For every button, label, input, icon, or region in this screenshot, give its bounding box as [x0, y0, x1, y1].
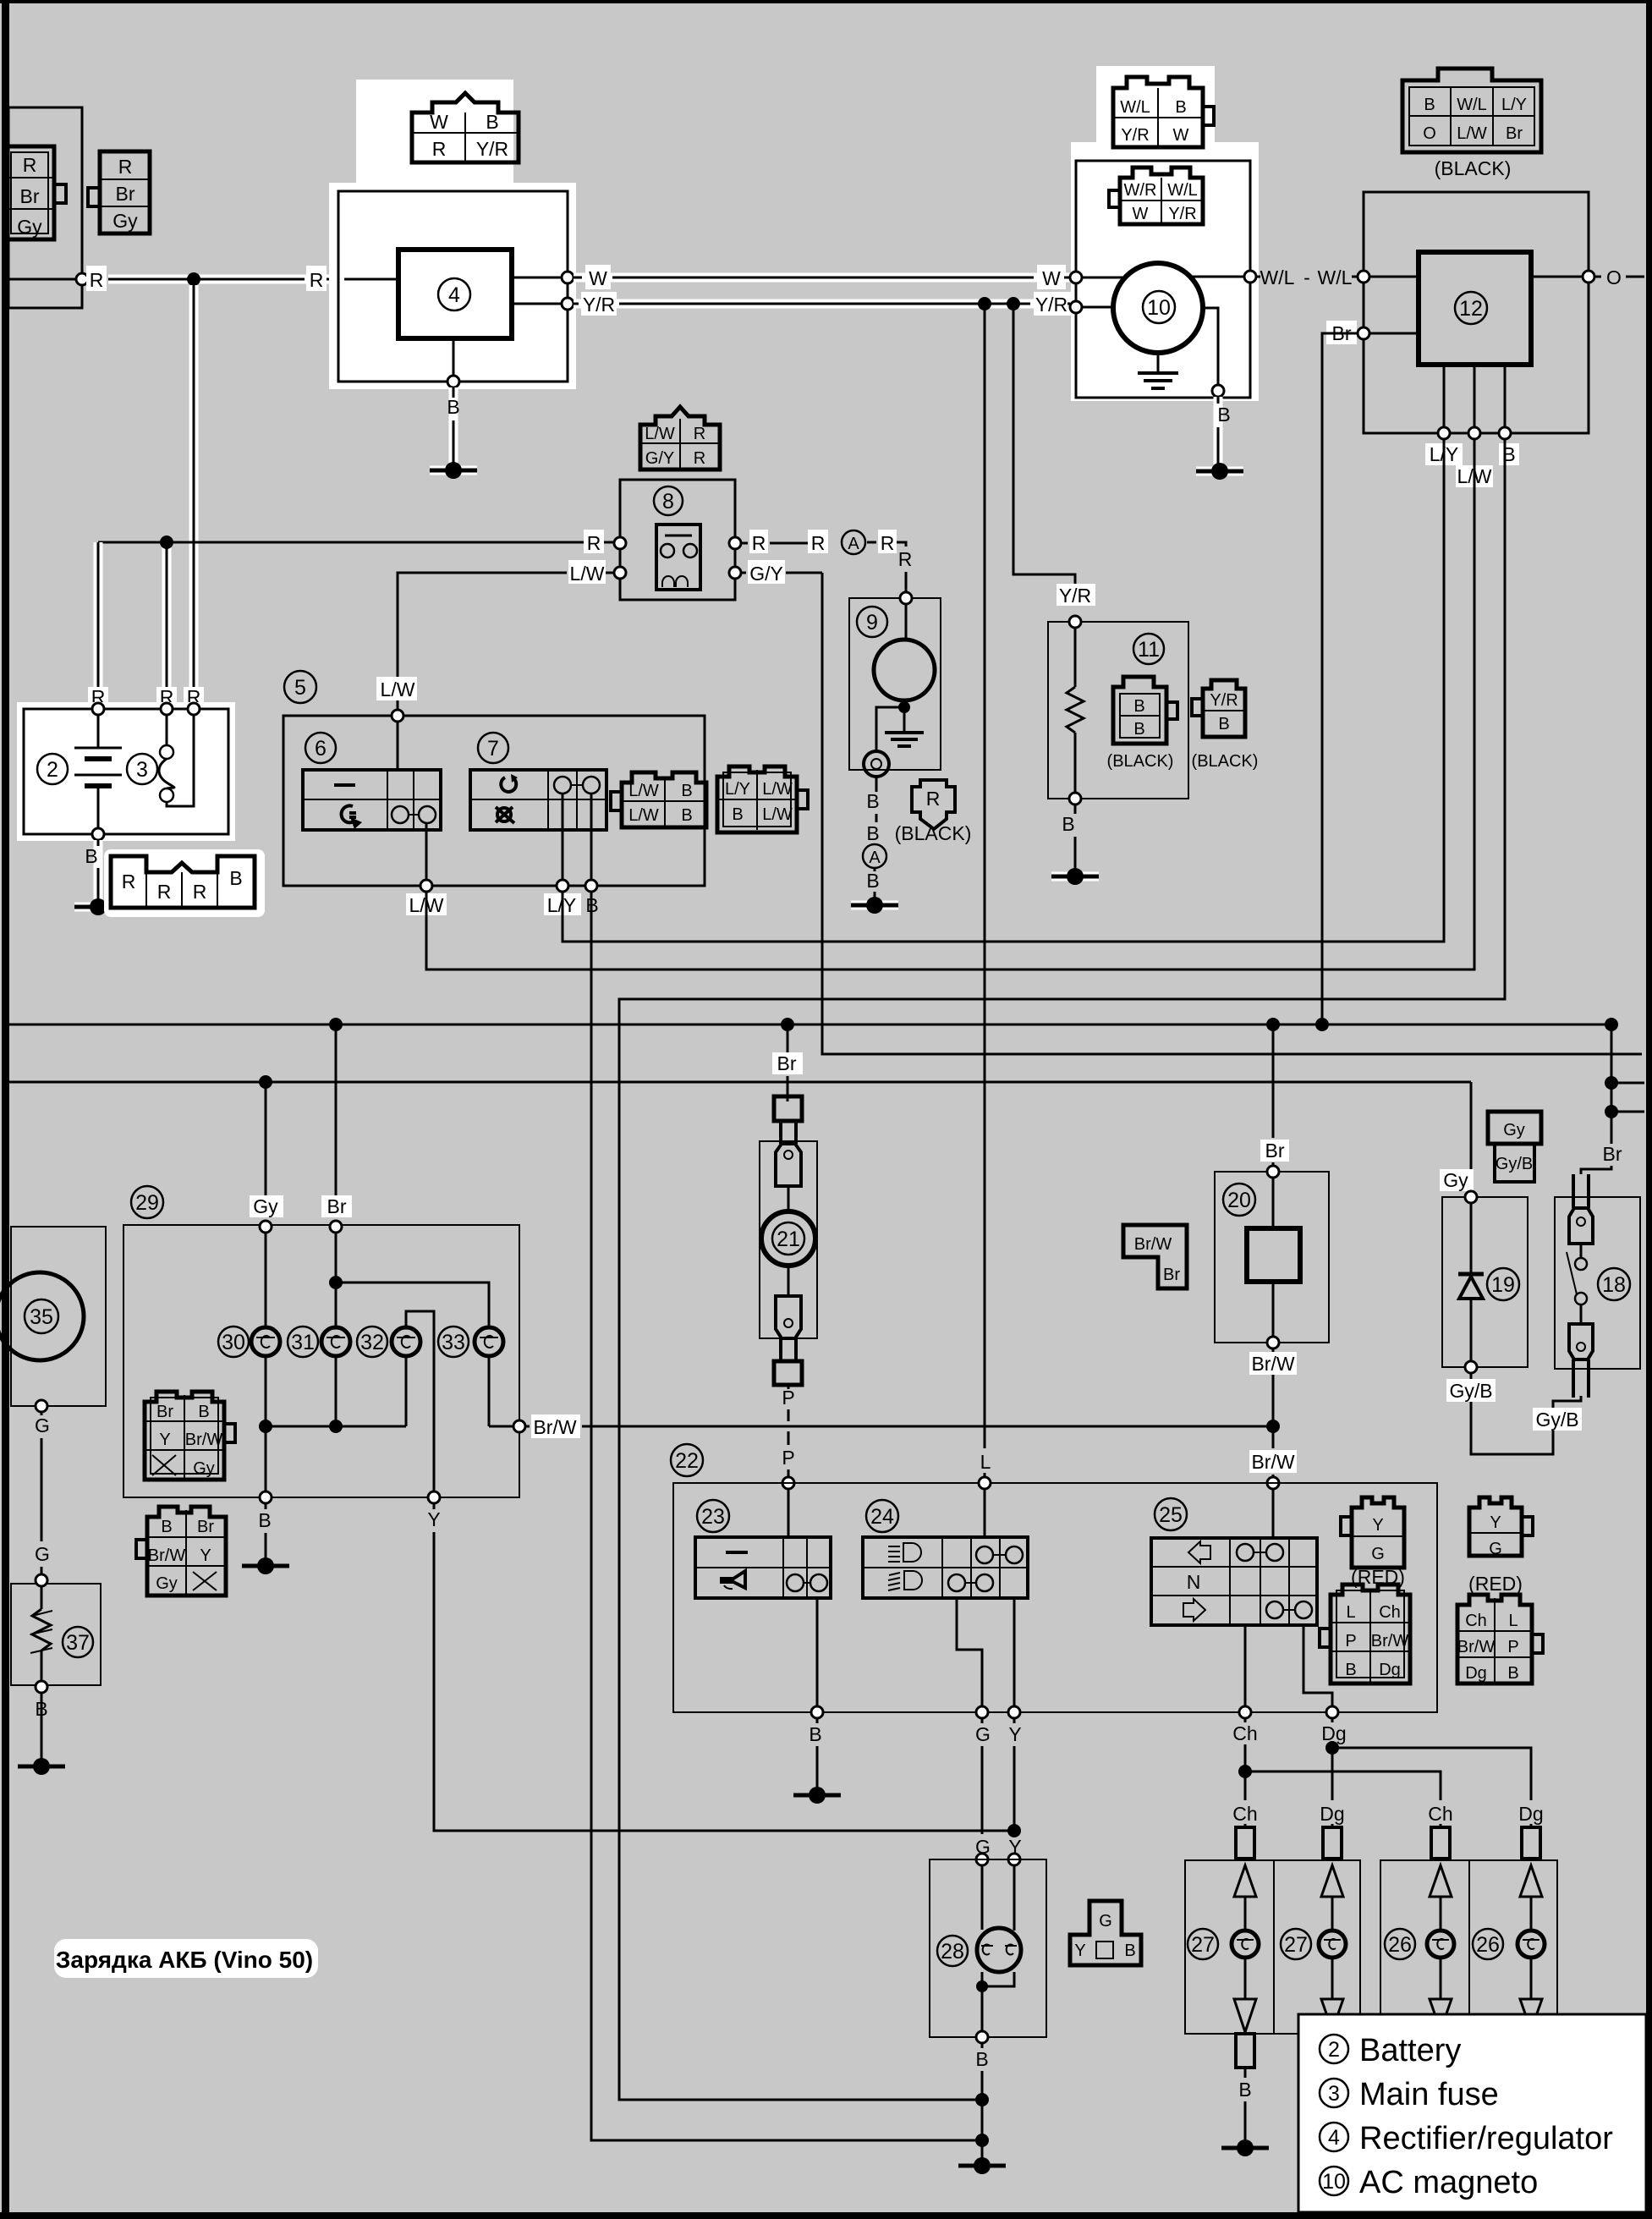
label circle 5	[284, 671, 316, 703]
svg-text:B: B	[229, 867, 242, 889]
node L/W into 5	[376, 677, 417, 770]
svg-text:10: 10	[1322, 2170, 1346, 2194]
svg-text:G: G	[1099, 1912, 1112, 1931]
connector (Ch L / Br/W P / Dg B)	[1457, 1595, 1543, 1683]
svg-text:Ch: Ch	[1232, 1803, 1257, 1825]
magneto 10 box	[1076, 161, 1250, 398]
wire Y/R branch to 11	[1013, 304, 1075, 592]
svg-text:Зарядка АКБ (Vino 50): Зарядка АКБ (Vino 50)	[56, 1947, 313, 1973]
svg-text:Y/R: Y/R	[583, 294, 615, 316]
svg-text:B: B	[447, 396, 459, 418]
relay 20 inner square	[1247, 1178, 1300, 1337]
svg-text:B: B	[732, 805, 743, 824]
svg-text:(BLACK): (BLACK)	[895, 822, 972, 844]
ground magneto B	[1196, 463, 1243, 480]
svg-text:L/Y: L/Y	[1501, 96, 1527, 114]
wire Gy to lamp 30	[265, 1233, 267, 1327]
svg-text:W/L: W/L	[1120, 98, 1150, 117]
svg-text:Br/W: Br/W	[1251, 1353, 1294, 1375]
wire Gy bus	[8, 1075, 1471, 1089]
svg-text:27: 27	[1191, 1933, 1215, 1957]
wire B chain below horn	[863, 777, 886, 898]
svg-text:28: 28	[941, 1940, 964, 1964]
boxes 27	[1185, 1860, 1360, 2034]
wire W to magneto	[574, 265, 1070, 289]
battery 2 symbol	[74, 715, 122, 828]
svg-text:Y/R: Y/R	[1121, 126, 1149, 145]
svg-text:Br: Br	[1603, 1143, 1622, 1165]
svg-text:Br: Br	[20, 185, 40, 207]
wire Y/R to magneto	[574, 292, 1071, 316]
svg-text:L/W: L/W	[762, 805, 793, 824]
svg-text:W: W	[1042, 267, 1061, 289]
wire R feed to fuse 8	[98, 536, 614, 706]
svg-text:B: B	[258, 1509, 271, 1531]
svg-text:20: 20	[1227, 1189, 1251, 1212]
wire Y from 24	[1007, 1598, 1022, 1858]
wire Y/R out of rectifier	[512, 303, 562, 305]
svg-text:B: B	[1124, 1942, 1135, 1960]
svg-text:R: R	[694, 425, 705, 443]
svg-text:B: B	[1175, 98, 1186, 117]
svg-text:Y: Y	[1008, 1723, 1021, 1745]
svg-text:Battery: Battery	[1359, 2033, 1461, 2068]
svg-text:R: R	[310, 269, 324, 291]
svg-text:29: 29	[135, 1191, 159, 1215]
connector (Y/G) red 2	[1468, 1497, 1533, 1595]
connector (L/Y L/W / B L/W) right of 5	[717, 766, 808, 832]
svg-text:19: 19	[1491, 1273, 1515, 1297]
svg-text:Ch: Ch	[1428, 1803, 1452, 1825]
svg-text:G/Y: G/Y	[749, 563, 783, 585]
label circle 19	[1487, 1268, 1519, 1300]
svg-text:L/W: L/W	[762, 780, 793, 799]
assy 11 box	[1048, 622, 1188, 799]
signal column Ch front right 26	[1385, 1827, 1454, 2030]
diode 19 symbol	[1458, 1203, 1484, 1361]
wire L/W out of 6	[406, 823, 447, 916]
horn output symbol	[864, 707, 904, 777]
svg-text:Br: Br	[1265, 1140, 1285, 1162]
svg-text:R: R	[193, 881, 207, 903]
connector (Gy / Gy/B)	[1488, 1112, 1541, 1182]
node Y/R on 11	[1069, 616, 1081, 628]
node B below 28	[975, 2031, 989, 2159]
lamp 30	[218, 1326, 280, 1357]
node A circle (to horn feed)	[808, 530, 912, 592]
pin R left of 8	[584, 530, 626, 554]
svg-text:(BLACK): (BLACK)	[1192, 752, 1259, 771]
svg-text:B: B	[1424, 96, 1435, 114]
svg-text:2: 2	[1328, 2038, 1340, 2062]
node Br on 29	[330, 1221, 342, 1233]
wire R down to battery (3)	[189, 285, 199, 706]
svg-text:Ch: Ch	[1465, 1612, 1487, 1630]
node Br top of 20	[1267, 1166, 1279, 1178]
node on 37	[36, 1574, 47, 1586]
node G below 35	[35, 1400, 50, 1574]
pin W magneto	[1070, 272, 1128, 283]
connector (L/W B / L/W B) in 5	[611, 772, 706, 827]
svg-text:11: 11	[1138, 638, 1160, 662]
label Br/W out of 29	[525, 1414, 1273, 1438]
wire B return from relay	[619, 439, 1505, 2100]
connector (R/Br/Gy) second	[88, 151, 150, 233]
node R on horn box	[900, 592, 912, 604]
title (Vino 50)	[54, 1939, 318, 1978]
svg-text:Y: Y	[1490, 1513, 1501, 1532]
svg-text:G: G	[1371, 1545, 1385, 1563]
svg-text:L/W: L/W	[645, 425, 675, 443]
label circle 28	[937, 1936, 968, 1966]
svg-text:24: 24	[870, 1505, 894, 1529]
pin L/W left of 8	[550, 560, 626, 585]
ground 28 B	[958, 2157, 1006, 2174]
pin Y/R magneto	[1070, 301, 1114, 313]
wire Ch from 25	[1232, 1625, 1257, 1827]
svg-text:2: 2	[47, 758, 58, 782]
lamp 31	[288, 1326, 350, 1357]
svg-text:Y/R: Y/R	[476, 138, 508, 160]
connector (W B / R Y/R) above rectifier	[412, 93, 519, 162]
svg-text:W/L: W/L	[1318, 266, 1353, 288]
wire Br from relay to bus	[1322, 333, 1358, 1018]
connector (Br/W, Br) L-shape	[1123, 1225, 1187, 1288]
magneto white panel	[1071, 142, 1259, 401]
signal column Dg rear right 26	[1473, 1827, 1545, 2030]
border frame bottom	[0, 2212, 1652, 2219]
svg-text:Y: Y	[159, 1431, 170, 1449]
svg-text:Br/W: Br/W	[148, 1546, 186, 1565]
wire Y/R-L long vertical	[984, 304, 986, 1448]
svg-text:R: R	[752, 532, 766, 554]
wire Y into 28	[1008, 1854, 1020, 1931]
wire Br drop to headlight 21	[772, 1024, 803, 1101]
icon hi-beam	[888, 1543, 921, 1562]
svg-text:L/W: L/W	[381, 678, 415, 700]
label circle 21	[772, 1222, 804, 1255]
svg-text:R: R	[694, 449, 705, 468]
svg-text:B: B	[85, 845, 97, 867]
lamp 33	[438, 1326, 503, 1357]
svg-text:4: 4	[448, 283, 460, 307]
fuse 8 element	[656, 525, 700, 590]
resistor 37 symbol	[30, 1586, 52, 1682]
svg-text:B: B	[1062, 813, 1074, 835]
wire R into rectifier	[344, 278, 398, 281]
svg-text:Br: Br	[777, 1052, 797, 1074]
svg-text:Y: Y	[1372, 1516, 1383, 1535]
node Gy on 19	[1465, 1191, 1477, 1203]
rectifier white panel	[329, 183, 576, 389]
pins L/Y L/W B bottom of relay	[1425, 365, 1519, 487]
switch 18 contacts	[1567, 1244, 1587, 1324]
border frame top	[0, 0, 1652, 3]
wire Y from lamp 32	[406, 1311, 434, 1491]
svg-text:9: 9	[866, 611, 878, 634]
box around 35	[11, 1227, 106, 1406]
label circle 8	[654, 486, 683, 515]
border frame right	[1646, 0, 1652, 2219]
svg-text:10: 10	[1147, 296, 1171, 320]
connector (W/L B / Y/R W) above magneto	[1113, 77, 1214, 147]
svg-text:AC magneto: AC magneto	[1359, 2165, 1538, 2200]
svg-text:R: R	[881, 532, 895, 554]
svg-text:G: G	[35, 1414, 50, 1436]
svg-text:Ch: Ch	[1379, 1603, 1401, 1622]
svg-text:P: P	[1507, 1638, 1518, 1656]
svg-text:B: B	[681, 782, 692, 800]
ground horn B	[851, 897, 898, 914]
ground 37 B	[18, 1758, 65, 1775]
battery 2 and main fuse 3 white box	[17, 702, 235, 841]
svg-text:B: B	[1133, 720, 1144, 739]
wire G/Y down and right	[822, 573, 1642, 1054]
wire Dg link to right signals	[1332, 1748, 1531, 1800]
bottom bullet terminal 18	[1569, 1324, 1593, 1398]
svg-text:31: 31	[291, 1331, 315, 1354]
svg-text:R: R	[811, 532, 826, 554]
svg-text:12: 12	[1459, 297, 1483, 321]
node Gy/B below 19	[1446, 1361, 1581, 1454]
wire P below 21	[782, 1385, 794, 1537]
node B below 11	[1062, 793, 1081, 870]
top bullet terminal 18	[1569, 1174, 1593, 1244]
connector (R R R B) below battery	[104, 849, 265, 917]
svg-text:O: O	[1606, 266, 1622, 288]
svg-text:B: B	[198, 1403, 209, 1421]
pin G/Y right of 8	[729, 560, 822, 585]
diode 19 box	[1442, 1197, 1528, 1367]
svg-text:Y/R: Y/R	[1059, 585, 1091, 607]
wire L/Y from 7 to relay	[563, 892, 575, 942]
svg-text:L/W: L/W	[570, 563, 605, 585]
wire L/W from 6 to relay	[426, 892, 436, 969]
contacts 25 bottom row	[1266, 1601, 1312, 1618]
rectifier 4 inner box	[398, 250, 512, 338]
svg-text:18: 18	[1602, 1273, 1626, 1297]
wire B inside magneto	[1203, 308, 1231, 464]
label Gy/B near 18	[1533, 1408, 1582, 1431]
svg-text:N: N	[1187, 1571, 1201, 1593]
headlight box	[760, 1141, 817, 1338]
svg-text:26: 26	[1476, 1933, 1500, 1957]
node B below battery	[85, 828, 104, 900]
svg-text:Br: Br	[1163, 1266, 1180, 1284]
svg-text:B: B	[1217, 404, 1230, 426]
speedometer 35 circle	[0, 1272, 84, 1360]
wire L/W from 8 to box 5	[398, 573, 550, 710]
icon right arrow	[1183, 1599, 1205, 1621]
svg-text:B: B	[1133, 697, 1144, 716]
label circle 29	[131, 1186, 163, 1218]
svg-text:6: 6	[315, 737, 327, 761]
svg-text:Dg: Dg	[1321, 1722, 1346, 1744]
svg-text:7: 7	[487, 737, 499, 761]
svg-text:L: L	[1508, 1612, 1518, 1630]
ground 23 B	[793, 1787, 841, 1804]
svg-text:32: 32	[360, 1331, 384, 1354]
wire L/W return	[431, 439, 1474, 969]
node B on 29 bottom	[258, 1491, 272, 1559]
connector (R) black near horn	[895, 780, 972, 844]
svg-text:R: R	[587, 532, 601, 554]
main fuse 3 symbol	[159, 715, 194, 806]
svg-text:L/W: L/W	[628, 782, 659, 800]
svg-text:W: W	[430, 111, 448, 133]
ground 29 B	[242, 1557, 289, 1574]
relay 12 inner box	[1419, 252, 1531, 365]
wire G into 28	[976, 1854, 988, 1930]
svg-text:Rectifier/regulator: Rectifier/regulator	[1359, 2121, 1613, 2156]
svg-text:Br/W: Br/W	[185, 1431, 223, 1449]
svg-text:G: G	[35, 1543, 50, 1565]
svg-text:W/L: W/L	[1457, 96, 1487, 114]
svg-text:B: B	[1218, 715, 1229, 733]
top bullet terminal	[774, 1096, 802, 1211]
contacts 24	[948, 1546, 1023, 1591]
node Y on 29 bottom	[427, 1491, 1008, 1831]
wire B ground from left 27	[1221, 2034, 1269, 2156]
labels Ch Dg columns	[1232, 1803, 1543, 1825]
svg-text:L: L	[1346, 1603, 1355, 1622]
connector (R/Br/Gy) on border	[5, 146, 66, 239]
wire Br/W to 20 and 25	[1249, 1420, 1297, 1538]
label circle 11	[1133, 634, 1164, 664]
headlight 21 bulb circle	[761, 1211, 815, 1266]
svg-text:Gy: Gy	[156, 1574, 178, 1593]
horn switch 23	[695, 1500, 831, 1598]
connector (B/B) black in 11	[1113, 677, 1177, 744]
svg-text:4: 4	[1328, 2126, 1340, 2150]
wire Dg from 25	[1303, 1625, 1347, 1827]
connector (G / Y [] B) tail	[1070, 1901, 1141, 1965]
svg-text:Y/R: Y/R	[1210, 691, 1238, 710]
node R labels above battery	[88, 686, 204, 709]
label circle 2	[37, 754, 68, 784]
wire right edge vertical with border stubs	[1581, 1024, 1644, 1174]
icon lo-beam	[888, 1571, 922, 1590]
wire L into 24	[979, 1451, 991, 1537]
svg-text:B: B	[975, 2048, 988, 2070]
svg-text:Br/W: Br/W	[1371, 1632, 1409, 1651]
pin R right of 8	[729, 530, 825, 554]
wire W/L - W/L magneto to relay 12	[1190, 266, 1358, 288]
svg-text:3: 3	[1328, 2082, 1340, 2106]
resistor 11 symbol	[1067, 628, 1084, 793]
svg-text:Gy: Gy	[253, 1195, 278, 1217]
svg-text:A: A	[848, 535, 859, 553]
svg-text:8: 8	[662, 490, 674, 514]
svg-text:W/R: W/R	[1124, 181, 1157, 200]
svg-text:W/L: W/L	[1167, 181, 1198, 200]
connector (B Br / Br/W Y / Gy x) below 29	[136, 1507, 226, 1596]
connector (B W/L L/Y / O L/W Br) top right	[1402, 69, 1541, 152]
label circle 35	[25, 1299, 58, 1333]
svg-text:W/L: W/L	[1260, 266, 1295, 288]
svg-text:Gy: Gy	[1443, 1169, 1468, 1191]
boxes 26	[1380, 1860, 1557, 2034]
wire Gy into 19	[1440, 1082, 1474, 1191]
turn switch 25	[1151, 1498, 1317, 1625]
switch 18 box	[1555, 1197, 1640, 1369]
wire Br/W collector in 29	[259, 1356, 525, 1491]
svg-text:W: W	[1173, 126, 1189, 145]
pin Br relay	[1326, 321, 1419, 344]
svg-text:37: 37	[66, 1631, 90, 1655]
svg-text:L/Y: L/Y	[725, 780, 750, 799]
svg-text:B: B	[681, 806, 692, 825]
svg-text:A: A	[869, 849, 881, 867]
svg-text:26: 26	[1388, 1933, 1412, 1957]
svg-text:Br: Br	[1506, 124, 1523, 143]
svg-text:Br: Br	[156, 1403, 173, 1421]
resistor 37 box	[11, 1584, 101, 1685]
svg-text:(BLACK): (BLACK)	[1435, 157, 1512, 179]
node B below 37	[35, 1681, 47, 1760]
label circle 12	[1455, 292, 1487, 324]
svg-text:Y/R: Y/R	[1168, 205, 1196, 223]
svg-text:Gy: Gy	[113, 210, 138, 232]
ground inside magneto	[1138, 353, 1178, 388]
svg-text:23: 23	[701, 1505, 725, 1529]
svg-text:Gy: Gy	[1503, 1121, 1525, 1140]
magneto coil circle	[1113, 263, 1203, 353]
svg-text:3: 3	[136, 758, 148, 782]
dimmer switch 24	[863, 1500, 1028, 1598]
wires L/Y B out of 7	[544, 794, 599, 916]
svg-text:30: 30	[222, 1331, 245, 1354]
svg-text:P: P	[1345, 1632, 1356, 1651]
svg-text:5: 5	[294, 676, 306, 700]
border frame left	[2, 0, 9, 2219]
connector (L/W R / G/Y R) above fuse 8	[640, 407, 720, 470]
wire Ch link to right signals	[1245, 1771, 1441, 1800]
fuse 8 box	[620, 480, 735, 600]
tail bulb 28	[976, 1928, 1021, 2031]
starter switch 7	[470, 733, 606, 830]
svg-text:B: B	[486, 111, 498, 133]
svg-text:Dg: Dg	[1320, 1803, 1344, 1825]
node Br/W below 20	[1249, 1337, 1297, 1426]
svg-text:Br/W: Br/W	[1457, 1638, 1496, 1656]
wire Br drop to meter lamp	[321, 1024, 352, 1217]
connector (Y/G) red 1	[1341, 1497, 1405, 1588]
svg-text:O: O	[1423, 124, 1436, 143]
svg-text:G/Y: G/Y	[645, 449, 674, 468]
svg-text:(RED): (RED)	[1468, 1573, 1523, 1595]
svg-text:Dg: Dg	[1518, 1803, 1543, 1825]
relay 12 outer box	[1364, 192, 1589, 433]
wire G from 24	[957, 1598, 991, 1858]
svg-text:P: P	[782, 1447, 794, 1469]
label Y/R above 11	[1057, 584, 1095, 607]
svg-text:Main fuse: Main fuse	[1359, 2077, 1499, 2112]
svg-text:(BLACK): (BLACK)	[1107, 752, 1174, 771]
horn 9 coil circle	[874, 604, 935, 713]
svg-text:Br/W: Br/W	[533, 1416, 576, 1438]
svg-text:W: W	[1133, 205, 1149, 223]
svg-text:R: R	[926, 788, 941, 810]
wire Br bus	[8, 1018, 1618, 1031]
signal column Dg rear left 27	[1281, 1827, 1346, 2030]
svg-text:R: R	[122, 871, 136, 893]
horn 9 box	[849, 598, 941, 770]
pin W/L relay	[1358, 271, 1419, 283]
signal column Ch front left 27	[1188, 1827, 1259, 2032]
svg-text:L: L	[980, 1451, 991, 1473]
svg-text:Br/W: Br/W	[1251, 1451, 1294, 1473]
